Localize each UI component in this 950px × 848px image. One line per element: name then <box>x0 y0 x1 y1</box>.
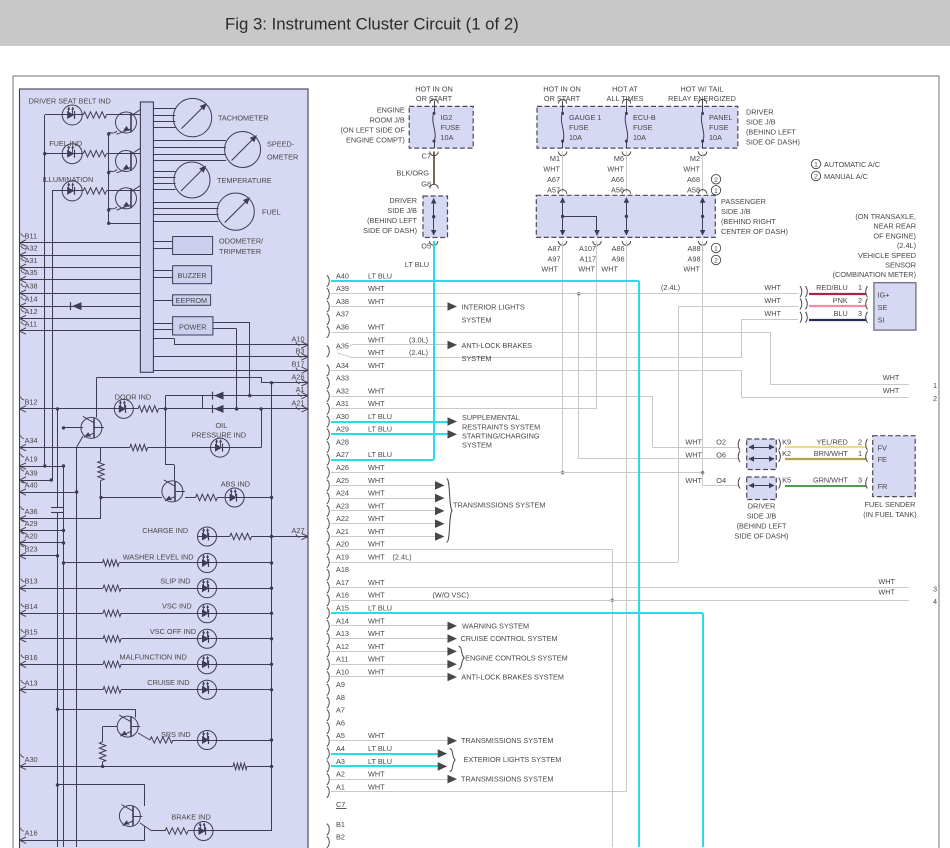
wire B11 row <box>20 242 141 244</box>
box POWER <box>173 317 213 335</box>
pin A25 <box>327 476 349 491</box>
pin A26 <box>327 463 349 478</box>
wire A30 row <box>20 765 274 768</box>
connector splice SI <box>800 312 807 323</box>
svg-text:A86: A86 <box>612 244 625 253</box>
svg-text:WHT: WHT <box>368 284 385 293</box>
pin A8 <box>327 693 345 708</box>
connector K9 right <box>779 437 791 450</box>
wire A35 3.0L branch <box>352 344 447 346</box>
wire A35 fork <box>337 345 352 358</box>
svg-text:A31: A31 <box>25 256 38 265</box>
pin A15 <box>327 604 349 619</box>
wire MALFUNCTION IND to rail <box>217 663 274 666</box>
svg-text:PASSENGER: PASSENGER <box>721 197 766 206</box>
labels M6 wire WHT A66 A56 <box>607 165 624 195</box>
label CRUISE CONTROL SYSTEM <box>461 634 558 643</box>
wire A27 LT BLU <box>331 459 434 461</box>
svg-text:WHT: WHT <box>685 476 702 485</box>
svg-text:DRIVER SEAT BELT IND: DRIVER SEAT BELT IND <box>29 96 111 105</box>
resistor srs base <box>99 742 105 762</box>
wire BRN/WHT <box>785 458 866 460</box>
label IG2 FUSE 10A <box>441 113 461 142</box>
label A1 wire color <box>368 782 385 791</box>
svg-text:10A: 10A <box>441 133 454 142</box>
connector G8 <box>421 179 438 188</box>
svg-text:FV: FV <box>878 443 887 452</box>
svg-text:MANUAL A/C: MANUAL A/C <box>824 172 868 181</box>
lamp BRAKE IND <box>188 822 213 841</box>
wire A24 to transmissions <box>331 498 435 500</box>
wire srs row <box>138 733 198 741</box>
transistor Q5 <box>162 480 185 502</box>
pin A7 <box>327 706 345 721</box>
svg-text:A98: A98 <box>688 255 701 264</box>
label ODOMETER/TRIPMETER <box>219 237 264 256</box>
label PANEL FUSE 10A <box>709 113 732 142</box>
wire A30 LT BLU <box>331 421 447 423</box>
svg-text:A11: A11 <box>25 320 37 329</box>
wire abs collector <box>165 409 174 481</box>
label A19 2.4L <box>393 552 412 561</box>
svg-text:WHT: WHT <box>368 552 385 561</box>
wire A21 row <box>133 396 308 411</box>
label HOT IN ON OR START (left) <box>415 85 453 104</box>
svg-text:2: 2 <box>933 394 937 403</box>
label ILLUMINATION <box>43 175 94 184</box>
pin A30 <box>20 754 38 770</box>
label YEL/RED <box>817 437 848 446</box>
pin A14 <box>327 616 349 631</box>
label GRN/WHT <box>813 476 848 485</box>
label DRIVER SIDE J/B (upper) <box>363 196 417 235</box>
pin A3 <box>327 757 345 772</box>
svg-text:A28: A28 <box>336 437 349 446</box>
arrow transmissions (A5) <box>448 737 458 746</box>
label CRUISE IND <box>147 678 189 687</box>
arrow supplemental restraints <box>448 417 458 426</box>
connector A87/A97 <box>548 241 567 264</box>
wire power out 1 <box>213 322 252 397</box>
svg-text:A117: A117 <box>580 255 597 264</box>
wire power out 2 <box>213 329 238 411</box>
svg-text:M1: M1 <box>550 154 560 163</box>
pin A18 <box>327 565 349 580</box>
svg-text:(BEHIND LEFT: (BEHIND LEFT <box>746 128 796 137</box>
svg-text:GRN/WHT: GRN/WHT <box>813 476 848 485</box>
label WHT 3 right <box>878 577 895 586</box>
box ODOMETER/TRIPMETER <box>173 237 213 255</box>
svg-text:A7: A7 <box>336 706 345 715</box>
label HOT W TAIL RELAY ENERGIZED <box>668 85 736 104</box>
label SPEEDOMETER <box>267 140 298 162</box>
wire vertical SI feed <box>741 320 743 358</box>
wire A40 LT BLU <box>331 280 639 282</box>
label A32 wire color <box>368 386 385 395</box>
label WARNING SYSTEM <box>462 621 529 630</box>
wire Q3 emitter to rail <box>107 207 117 212</box>
connector A86/A96 <box>612 241 631 264</box>
pin A12 <box>327 642 349 657</box>
wires to power box <box>153 324 172 330</box>
wire supply rail <box>271 383 273 831</box>
arrow cruise control <box>448 634 458 643</box>
wire A1 row <box>331 791 626 793</box>
label A13 wire color <box>368 629 385 638</box>
wire A29 row <box>20 529 66 532</box>
svg-text:BRN/WHT: BRN/WHT <box>814 449 849 458</box>
svg-text:(2.4L): (2.4L) <box>661 283 680 292</box>
svg-text:2: 2 <box>714 177 718 184</box>
svg-text:10A: 10A <box>569 133 582 142</box>
svg-text:(BEHIND RIGHT: (BEHIND RIGHT <box>721 217 776 226</box>
svg-text:IG2: IG2 <box>441 113 453 122</box>
wire Q2 emitter to rail <box>107 170 117 175</box>
connector splice SE <box>800 298 807 309</box>
wire A20 row <box>331 549 612 551</box>
wire A12 row <box>20 318 141 320</box>
svg-text:A9: A9 <box>336 680 345 689</box>
label A34 wire color <box>368 361 385 370</box>
pin A9 <box>327 680 345 695</box>
svg-text:A68: A68 <box>687 175 700 184</box>
wire A12 to engine controls <box>331 651 448 653</box>
svg-text:4: 4 <box>933 597 937 606</box>
pin A17 <box>327 578 349 593</box>
label BLK/ORG <box>397 169 430 178</box>
label FUEL SENDER (IN FUEL TANK) <box>863 500 916 519</box>
lamp CRUISE IND <box>198 680 217 699</box>
wire SE row <box>678 306 798 308</box>
wire B15 row <box>20 638 198 640</box>
wire abs base <box>101 497 162 499</box>
pin A6 <box>327 719 345 734</box>
label A27 wire color <box>368 450 392 459</box>
svg-text:ENGINE: ENGINE <box>377 106 405 115</box>
svg-text:K5: K5 <box>782 476 791 485</box>
connector O2 left <box>738 439 740 450</box>
svg-text:A30: A30 <box>25 755 38 764</box>
pin A35 <box>327 342 349 357</box>
svg-text:LT BLU: LT BLU <box>368 757 392 766</box>
svg-text:A16: A16 <box>336 591 349 600</box>
label WHT 4 right <box>878 588 895 597</box>
wire A2 to transmissions <box>331 779 447 781</box>
svg-text:SIDE OF DASH): SIDE OF DASH) <box>735 532 789 541</box>
svg-text:RESTRAINTS SYSTEM: RESTRAINTS SYSTEM <box>462 422 540 431</box>
wire A5 to transmissions <box>331 740 447 742</box>
svg-text:SPEED-: SPEED- <box>267 140 295 149</box>
label A19 wire color <box>368 552 385 561</box>
marker auto A/C 2 <box>711 175 720 184</box>
svg-text:A2: A2 <box>336 770 345 779</box>
svg-text:(COMBINATION METER): (COMBINATION METER) <box>833 270 916 279</box>
label A20 wire color <box>368 540 385 549</box>
svg-text:A35: A35 <box>25 268 38 277</box>
fuse GAUGE 1 10A <box>561 106 564 148</box>
pin A4 <box>327 744 345 759</box>
svg-text:A13: A13 <box>25 678 38 687</box>
wire A3 LT BLU <box>331 765 438 767</box>
lamp WASHER LEVEL IND <box>198 554 217 573</box>
pin B23 <box>20 543 38 559</box>
connector meter SE <box>866 298 868 309</box>
pin B2 <box>327 833 345 848</box>
pin A16 <box>327 591 349 606</box>
svg-text:A38: A38 <box>25 282 38 291</box>
resistor illumination <box>83 188 106 194</box>
pin A27 <box>327 450 349 465</box>
instrument cluster panel background <box>20 89 309 848</box>
svg-text:A10: A10 <box>336 667 349 676</box>
wire M2 to J/B <box>702 152 704 193</box>
pin A32 <box>20 244 38 259</box>
wire A32 row <box>331 396 653 398</box>
connector A57 entry <box>558 190 566 194</box>
arrow transmissions (A2) <box>448 775 458 784</box>
svg-text:SENSOR: SENSOR <box>885 261 916 270</box>
wire SLIP IND to rail <box>217 587 274 590</box>
svg-text:WHT: WHT <box>368 591 385 600</box>
svg-text:A67: A67 <box>547 175 560 184</box>
wire brake emitter <box>140 823 165 831</box>
svg-text:FR: FR <box>878 482 888 491</box>
svg-text:FUSE: FUSE <box>633 123 653 132</box>
svg-text:DRIVER: DRIVER <box>746 108 774 117</box>
wire brake to rail <box>213 830 272 832</box>
wire bus to A10 pin <box>153 339 308 345</box>
pin A20 <box>327 540 349 555</box>
arrow anti-lock brakes (A10) <box>448 673 458 682</box>
label A35 wire colors <box>368 335 428 357</box>
svg-text:(ON LEFT SIDE OF: (ON LEFT SIDE OF <box>340 126 405 135</box>
svg-text:BRAKE IND: BRAKE IND <box>171 813 210 822</box>
pin 3 right edge <box>933 585 937 594</box>
svg-text:WHT: WHT <box>368 489 385 498</box>
pin A35 <box>20 268 38 283</box>
wire A16 row <box>20 840 145 842</box>
svg-text:WHT: WHT <box>368 348 385 357</box>
wire CRUISE IND to rail <box>217 688 274 691</box>
resistor CRUISE IND <box>103 687 121 693</box>
svg-text:WHT: WHT <box>368 386 385 395</box>
wire PNK <box>809 305 866 307</box>
svg-text:B16: B16 <box>25 653 38 662</box>
label BLU <box>834 309 848 318</box>
junction block DRIVER SIDE J/B (fuel) box 1 <box>747 439 777 470</box>
svg-text:B2: B2 <box>336 833 345 842</box>
wire fuel lamp row <box>43 152 140 155</box>
label A24 wire color <box>368 489 385 498</box>
svg-text:SYSTEM: SYSTEM <box>462 440 492 449</box>
wire vertical SE feed <box>678 306 680 562</box>
label A29 wire color <box>368 425 392 434</box>
diode D2 <box>213 405 224 413</box>
wire A38 row <box>20 293 141 295</box>
svg-text:B11: B11 <box>25 232 37 241</box>
label ABS IND <box>221 479 250 488</box>
svg-text:B12: B12 <box>25 397 38 406</box>
pin A33 <box>327 374 349 389</box>
label LT BLU (O5) <box>405 260 429 269</box>
gauge TEMPERATURE <box>174 162 210 198</box>
svg-text:A30: A30 <box>336 412 349 421</box>
svg-text:C7: C7 <box>336 800 345 809</box>
svg-text:WHT: WHT <box>578 265 595 274</box>
label INTERIOR LIGHTS SYSTEM <box>462 303 525 325</box>
bus bar (cluster internal connector) <box>140 102 153 372</box>
label A4 wire color <box>368 744 392 753</box>
fuse ECU-B 10A <box>625 106 628 148</box>
wire A21 to transmissions <box>331 536 435 538</box>
svg-text:A29: A29 <box>336 425 349 434</box>
wire A14 row <box>20 306 141 308</box>
svg-text:A107: A107 <box>579 244 596 253</box>
svg-text:A87: A87 <box>548 244 561 253</box>
pin A12 <box>20 307 38 322</box>
pin A34 <box>20 435 38 451</box>
box FUEL SENDER connector <box>873 436 916 497</box>
connector M2 <box>690 152 707 164</box>
wire A32 row <box>20 255 141 257</box>
connector C7 <box>422 151 439 160</box>
transistor Q1 <box>116 110 141 135</box>
svg-text:WHT: WHT <box>368 514 385 523</box>
wire LT BLU vertical 2 <box>702 613 704 847</box>
svg-text:WHT: WHT <box>368 361 385 370</box>
arrow interior lights <box>448 302 458 311</box>
wire bus to B17 pin <box>153 370 308 372</box>
svg-text:SE: SE <box>878 303 888 312</box>
junction block PASSENGER SIDE J/B box <box>536 195 715 237</box>
label A5 wire color <box>368 731 385 740</box>
wire vertical A86 feed <box>626 241 628 792</box>
wire vertical A20/A16 link <box>610 549 614 847</box>
svg-text:ODOMETER/: ODOMETER/ <box>219 237 264 246</box>
svg-text:B14: B14 <box>25 602 38 611</box>
connector FV <box>866 439 868 450</box>
svg-text:A3: A3 <box>336 757 345 766</box>
svg-text:A12: A12 <box>25 307 38 316</box>
wire A15 LT BLU <box>331 612 703 614</box>
pin A2 <box>327 770 345 785</box>
wires to odometer box <box>153 242 172 249</box>
pin B14 <box>20 602 38 617</box>
connector O5 <box>421 241 438 251</box>
svg-text:A19: A19 <box>336 552 349 561</box>
wire Q4 collector <box>96 377 98 417</box>
svg-text:A36: A36 <box>336 323 349 332</box>
fuse box IG2 entry <box>430 99 438 106</box>
svg-text:K9: K9 <box>782 437 791 446</box>
svg-text:A12: A12 <box>336 642 349 651</box>
pin B1 <box>327 820 345 835</box>
svg-text:WHT: WHT <box>368 323 385 332</box>
svg-text:A8: A8 <box>336 693 345 702</box>
svg-text:ANTI-LOCK BRAKES SYSTEM: ANTI-LOCK BRAKES SYSTEM <box>461 672 564 681</box>
svg-text:A25: A25 <box>336 476 349 485</box>
svg-text:A39: A39 <box>336 284 349 293</box>
svg-text:WHT: WHT <box>764 309 781 318</box>
wire charge row <box>217 535 309 538</box>
label FUEL <box>262 208 281 217</box>
labels WHT O2/O6/O4 <box>685 437 726 485</box>
svg-text:TACHOMETER: TACHOMETER <box>218 114 269 123</box>
label HOT AT ALL TIMES <box>607 85 644 104</box>
svg-text:WHT: WHT <box>368 540 385 549</box>
junction block fuse box (gauge/ecu-b/panel) <box>537 106 738 148</box>
wire A36 row <box>20 518 102 520</box>
svg-text:A6: A6 <box>336 719 345 728</box>
label BRAKE IND <box>171 813 210 822</box>
wire VSC IND to rail <box>217 612 274 615</box>
pin B11 <box>20 232 38 247</box>
svg-text:WHT: WHT <box>883 373 900 382</box>
svg-text:A34: A34 <box>336 361 349 370</box>
label A10 wire color <box>368 667 385 676</box>
label A2 wire color <box>368 770 385 779</box>
J/B jumper K9 <box>749 444 775 450</box>
label A12 wire color <box>368 642 385 651</box>
svg-text:ANTI-LOCK BRAKES: ANTI-LOCK BRAKES <box>462 341 533 350</box>
svg-text:A19: A19 <box>25 455 38 464</box>
gauge SPEEDOMETER <box>225 132 261 168</box>
wire A34 row <box>331 370 741 372</box>
svg-text:A38: A38 <box>336 297 349 306</box>
wire Q1 collector to bus <box>139 109 142 111</box>
label ANTI-LOCK BRAKES SYSTEM (A35) <box>462 341 533 363</box>
svg-text:SIDE J/B: SIDE J/B <box>387 206 417 215</box>
svg-text:A15: A15 <box>336 604 349 613</box>
wire A40 row <box>20 490 79 493</box>
svg-text:ALL TIMES: ALL TIMES <box>607 94 644 103</box>
wire vertical bus left B <box>52 191 54 480</box>
wire A16 row <box>331 600 909 602</box>
svg-text:OMETER: OMETER <box>267 153 298 162</box>
svg-text:B23: B23 <box>25 544 38 553</box>
wire vertical O2 feed <box>652 396 654 447</box>
svg-text:2: 2 <box>714 258 718 265</box>
label A23 wire color <box>368 501 385 510</box>
pin A29 <box>20 518 38 534</box>
label A11 wire color <box>368 655 385 664</box>
wire A25 to transmissions <box>331 485 435 487</box>
svg-text:CRUISE CONTROL SYSTEM: CRUISE CONTROL SYSTEM <box>461 634 558 643</box>
svg-text:A22: A22 <box>336 514 349 523</box>
connector M1 <box>550 152 567 164</box>
svg-text:FUEL: FUEL <box>262 208 281 217</box>
labels WHT below passenger J/B <box>541 265 700 274</box>
svg-text:YEL/RED: YEL/RED <box>817 437 848 446</box>
lamp ILLUMINATION <box>62 181 83 201</box>
svg-text:WHT: WHT <box>883 386 900 395</box>
connector meter IG+ <box>866 286 868 297</box>
arrow exterior lights 2 <box>438 762 448 771</box>
title bar <box>0 0 950 46</box>
svg-text:WHT: WHT <box>368 731 385 740</box>
svg-text:WHT: WHT <box>368 642 385 651</box>
wire B12 row <box>20 407 115 410</box>
connector K2 right <box>779 449 791 462</box>
svg-text:WHT: WHT <box>368 578 385 587</box>
arrow engine controls 2 <box>447 660 457 669</box>
wire A20 row <box>20 541 66 544</box>
svg-text:LT BLU: LT BLU <box>405 260 429 269</box>
wire O4 row <box>703 485 739 487</box>
svg-text:LT BLU: LT BLU <box>368 744 392 753</box>
wire LT BLU vertical 1 <box>638 281 640 847</box>
label A31 wire color <box>368 399 385 408</box>
